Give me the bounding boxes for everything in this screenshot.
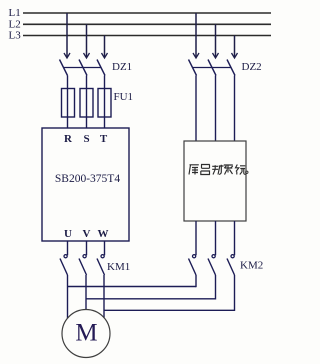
wire DZ1 pole 1 to fuse 1: [67, 76, 69, 129]
motor M circle: [62, 310, 110, 358]
wire bypass line 3 (W node to KM2 pole 3): [104, 309, 235, 311]
breaker DZ1 pole 3 blade: [97, 60, 105, 76]
punctuation after 统: [246, 171, 248, 173]
svg-text:S: S: [83, 133, 89, 145]
svg-text:V: V: [83, 228, 91, 240]
svg-text:L2: L2: [9, 18, 21, 30]
wire bypass line 2 (V node to KM2 pole 2): [86, 298, 216, 300]
wire tap from L3 to DZ2 pole 3 (with arrow): [232, 36, 238, 59]
wire bus L3: [23, 35, 271, 37]
original starting system box: [184, 141, 246, 221]
breaker DZ1 pole 2 blade: [79, 60, 87, 76]
wire bus L2: [23, 23, 271, 25]
breaker DZ1 pole 1 blade: [60, 60, 68, 76]
wire tap from L3 to DZ1 pole 3 (with arrow): [102, 36, 108, 59]
contactor KM1 pole 3: [97, 255, 105, 275]
glyph 统: [236, 165, 246, 175]
wire tap from L2 to DZ1 pole 2 (with arrow): [84, 24, 90, 58]
svg-text:M: M: [75, 320, 97, 347]
glyph 系: [224, 165, 233, 175]
contactor KM1 pole 1: [60, 255, 68, 275]
wire original-starter box to KM2 pole 1: [195, 221, 197, 255]
label 原启动系统 (drawn strokes): [189, 165, 246, 175]
svg-text:T: T: [100, 133, 108, 145]
svg-text:W: W: [98, 228, 109, 240]
fuse FU1 element 1: [62, 89, 75, 118]
svg-text:KM2: KM2: [240, 260, 263, 272]
wire KM1 pole 1 to motor (node U): [67, 275, 69, 318]
svg-text:KM1: KM1: [107, 261, 130, 273]
svg-text:SB200-375T4: SB200-375T4: [55, 173, 120, 185]
svg-text:R: R: [64, 133, 73, 145]
soft starter box SB200-375T4: [42, 128, 129, 241]
wire KM2 pole 1 down to bypass line 1: [195, 275, 197, 287]
wire original-starter box to KM2 pole 3: [234, 221, 236, 255]
breaker DZ2 linkage bar: [193, 67, 232, 69]
glyph 动: [212, 165, 223, 175]
breaker DZ2 pole 3 blade: [227, 60, 235, 76]
wire DZ2 pole 1 to original-starter box: [195, 76, 197, 142]
wire KM1 pole 2 to motor (node V): [85, 275, 87, 310]
svg-text:DZ1: DZ1: [112, 61, 132, 73]
fuse FU1 element 2: [80, 89, 93, 118]
wire tap from L1 to DZ1 pole 1 (with arrow): [64, 13, 70, 58]
svg-text:FU1: FU1: [114, 91, 134, 103]
fuse FU1 element 3: [98, 89, 111, 118]
svg-text:U: U: [64, 228, 72, 240]
contactor KM2 pole 3: [227, 255, 235, 275]
wire DZ2 pole 3 to original-starter box: [234, 76, 236, 142]
wire bus L1: [23, 12, 271, 14]
wire original-starter box to KM2 pole 2: [215, 221, 217, 255]
breaker DZ1 linkage bar: [64, 67, 102, 69]
wire KM1 pole 3 to motor (node W): [103, 275, 105, 318]
breaker DZ2 pole 1 blade: [189, 60, 197, 76]
wire KM2 pole 2 down to bypass line 2: [215, 275, 217, 300]
svg-text:DZ2: DZ2: [242, 61, 262, 73]
contactor KM2 pole 2: [208, 255, 216, 275]
wire U output to KM1 pole 1: [67, 241, 69, 255]
wire DZ1 pole 3 to fuse 3: [104, 76, 106, 129]
svg-text:L1: L1: [9, 7, 21, 19]
wire tap from L2 to DZ2 pole 2 (with arrow): [213, 24, 219, 58]
svg-text:L3: L3: [9, 30, 22, 42]
wire V output to KM1 pole 2: [86, 241, 88, 255]
contactor KM2 pole 1: [189, 255, 197, 275]
contactor KM1 pole 2: [79, 255, 87, 275]
wire KM2 pole 3 down to bypass line 3: [234, 275, 236, 311]
glyph 启: [201, 165, 210, 175]
wire tap from L1 to DZ2 pole 1 (with arrow): [193, 13, 199, 58]
glyph 原: [189, 165, 199, 175]
wire DZ2 pole 2 to original-starter box: [215, 76, 217, 142]
breaker DZ2 pole 2 blade: [208, 60, 216, 76]
wire bypass line 1 (U node to KM2 pole 1): [68, 286, 197, 288]
wire W output to KM1 pole 3: [104, 241, 106, 255]
wire DZ1 pole 2 to fuse 2: [86, 76, 88, 129]
